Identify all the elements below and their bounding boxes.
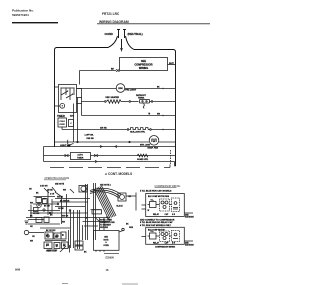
svg-text:FRT21 LRC: FRT21 LRC bbox=[102, 12, 120, 16]
svg-text:(NEUTRAL): (NEUTRAL) bbox=[128, 32, 143, 36]
svg-text:DIAGRAM: DIAGRAM bbox=[185, 216, 194, 219]
svg-text:SEE NOTE: SEE NOTE bbox=[55, 183, 65, 185]
svg-text:O.L.: O.L. bbox=[151, 200, 155, 202]
svg-text:WIRING DIAGRAM: WIRING DIAGRAM bbox=[99, 20, 129, 24]
svg-text:BLACK: BLACK bbox=[117, 205, 124, 208]
svg-text:5995271964: 5995271964 bbox=[12, 13, 29, 17]
svg-text:RELAY: RELAY bbox=[153, 241, 160, 244]
svg-text:TIMER: TIMER bbox=[77, 158, 84, 160]
svg-text:OPERATING DIAGRAM: OPERATING DIAGRAM bbox=[45, 177, 70, 180]
svg-text:2 OR: 2 OR bbox=[50, 193, 55, 195]
svg-text:WIRING: WIRING bbox=[139, 67, 148, 70]
svg-text:GRN: GRN bbox=[129, 227, 134, 229]
svg-text:DIAGRAM: DIAGRAM bbox=[185, 244, 194, 247]
svg-text:W: W bbox=[148, 210, 150, 212]
svg-text:AUTO: AUTO bbox=[77, 154, 83, 157]
svg-text:BK OR: BK OR bbox=[44, 206, 50, 208]
svg-text:LIGHT SW.: LIGHT SW. bbox=[60, 145, 71, 147]
svg-text:EVAP. FAN: EVAP. FAN bbox=[148, 146, 159, 149]
svg-text:MULLION HTR.: MULLION HTR. bbox=[130, 131, 145, 133]
svg-text:9/98: 9/98 bbox=[15, 268, 21, 272]
svg-text:BLK COMP MOTOR RUN: BLK COMP MOTOR RUN bbox=[148, 196, 170, 198]
svg-text:GROUND: GROUND bbox=[100, 227, 109, 229]
svg-text:5 T.E. BLUE RUN NO RELAY CAP: 5 T.E. BLUE RUN NO RELAY CAP bbox=[140, 221, 173, 224]
svg-text:BK OR WH: BK OR WH bbox=[46, 230, 56, 232]
svg-text:WH OR: WH OR bbox=[62, 215, 69, 217]
svg-text:WH BK: WH BK bbox=[57, 196, 64, 198]
svg-text:GUARD HTR.: GUARD HTR. bbox=[137, 158, 149, 161]
svg-text:AIR SW.: AIR SW. bbox=[100, 126, 107, 129]
svg-text:5 T.E. BLUE RUN CAP. MODELS: 5 T.E. BLUE RUN CAP. MODELS bbox=[140, 190, 172, 193]
svg-text:BK: BK bbox=[111, 69, 115, 71]
svg-text:CONN: CONN bbox=[103, 245, 109, 247]
svg-text:RELAY: RELAY bbox=[153, 213, 160, 216]
svg-text:COMPRESSOR WIRING: COMPRESSOR WIRING bbox=[155, 246, 176, 248]
svg-text:OR WH: OR WH bbox=[33, 213, 40, 215]
svg-text:MTR. LIGHT: MTR. LIGHT bbox=[140, 145, 151, 147]
svg-text:TIMER CONT: TIMER CONT bbox=[46, 251, 58, 253]
svg-text:CORD: CORD bbox=[105, 32, 113, 36]
svg-text:BK WH OR: BK WH OR bbox=[60, 200, 70, 202]
svg-text:TIMER: TIMER bbox=[57, 115, 65, 118]
svg-text:TERM.: TERM. bbox=[138, 97, 145, 99]
svg-text:FRZ LIGHT: FRZ LIGHT bbox=[125, 90, 137, 92]
svg-text:ADC: ADC bbox=[70, 115, 75, 118]
svg-text:1-OFF SW.: 1-OFF SW. bbox=[85, 134, 94, 136]
svg-text:OR BK: OR BK bbox=[47, 189, 53, 191]
svg-text:◄ CONT. MODELS: ◄ CONT. MODELS bbox=[104, 172, 132, 176]
svg-text:DEF. HEATER: DEF. HEATER bbox=[106, 96, 120, 99]
svg-text:COLD: COLD bbox=[60, 121, 66, 123]
svg-text:BLK COMP MOTOR: BLK COMP MOTOR bbox=[148, 230, 165, 232]
svg-text:GR BK: GR BK bbox=[58, 208, 64, 210]
svg-text:WHT: WHT bbox=[169, 63, 174, 65]
svg-text:4 BK WH: 4 BK WH bbox=[40, 184, 48, 187]
svg-text:CONT.: CONT. bbox=[59, 124, 65, 126]
svg-text:SEE NOTE A: SEE NOTE A bbox=[100, 184, 112, 187]
svg-text:4 T.E. RUN CAP MODELS ONLY: 4 T.E. RUN CAP MODELS ONLY bbox=[140, 224, 172, 227]
svg-text:AND CONNECT TO COMPRESSOR: AND CONNECT TO COMPRESSOR bbox=[140, 218, 175, 221]
svg-text:FAN SW.: FAN SW. bbox=[87, 137, 95, 140]
svg-text:NOTE: NOTE bbox=[104, 239, 110, 241]
svg-text:E2569V: E2569V bbox=[106, 256, 115, 259]
svg-text:2: 2 bbox=[86, 218, 87, 220]
